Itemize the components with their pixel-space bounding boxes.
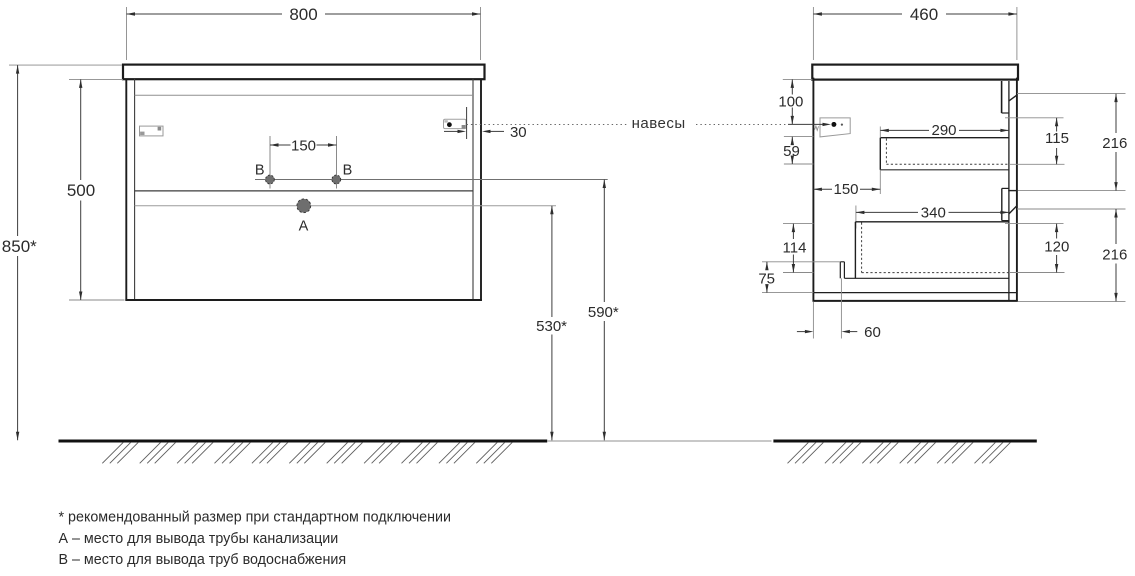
thin floor line between views [547, 440, 771, 442]
right hinge plate [444, 119, 467, 128]
dotted hanger line left segment [467, 124, 628, 126]
svg-text:120: 120 [1044, 239, 1069, 256]
svg-text:75: 75 [758, 271, 775, 288]
svg-text:800: 800 [289, 5, 317, 24]
floor line under front view [59, 440, 548, 443]
dimension 115 [1005, 118, 1069, 165]
side view front outer line [1016, 78, 1018, 302]
svg-text:100: 100 [778, 94, 803, 111]
dimension 290 [880, 122, 1009, 139]
front view mid divider line [135, 190, 473, 192]
floor line under side view [773, 440, 1036, 443]
side view bottom edge [813, 300, 1018, 302]
drawer 2 hidden bottom [861, 223, 863, 273]
front view left wall outer line [125, 79, 127, 301]
front panel 1 bottom edge [1008, 190, 1018, 192]
drawer 1 hidden bottom [885, 139, 887, 165]
front view bottom edge [125, 299, 482, 301]
dimension 460 [813, 5, 1017, 60]
dimension 530* [536, 206, 567, 440]
dimension 75 [758, 262, 840, 293]
dimension 850* [2, 65, 122, 440]
left hinge plate [140, 126, 164, 136]
svg-text:530*: 530* [536, 318, 567, 335]
dimension 590* [588, 180, 619, 441]
svg-text:150: 150 [291, 138, 316, 155]
bottom panel line [813, 292, 1017, 294]
svg-text:500: 500 [67, 181, 95, 200]
ground hatching front [102, 442, 123, 463]
svg-text:850*: 850* [2, 237, 37, 256]
dimension 150 side view [813, 181, 880, 198]
countertop front view [123, 65, 485, 80]
front view A level line [135, 205, 556, 207]
svg-text:115: 115 [1045, 130, 1069, 147]
svg-text:290: 290 [931, 122, 956, 139]
hinge extension line [466, 107, 468, 139]
front view right wall outer line [480, 79, 482, 301]
dimension 150 between B holes [270, 136, 337, 189]
drawer 2 outline [855, 222, 1009, 278]
dimension 114 [783, 224, 814, 273]
dimension 800 [127, 5, 481, 60]
side view back wall line [812, 78, 814, 301]
svg-text:590*: 590* [588, 304, 619, 321]
front panel bevel upper [1009, 95, 1017, 101]
svg-text:30: 30 [510, 124, 527, 141]
front view top rail line [135, 94, 473, 96]
side view bottom extension line [1018, 300, 1126, 302]
svg-text:340: 340 [921, 205, 946, 222]
svg-text:460: 460 [910, 5, 938, 24]
hole A [297, 199, 311, 213]
dimension 216 upper [1102, 94, 1127, 191]
dimension 100 [778, 79, 812, 124]
countertop side view [812, 65, 1018, 80]
svg-text:60: 60 [864, 324, 881, 341]
front panel 1 top extension line [1017, 93, 1126, 95]
svg-text:А: А [299, 218, 309, 234]
dimension 120 [1005, 224, 1069, 273]
svg-text:59: 59 [783, 143, 800, 160]
hole B left [266, 175, 275, 184]
svg-text:150: 150 [833, 181, 858, 198]
dimension 500 [67, 79, 125, 300]
handle groove upper [1002, 81, 1009, 113]
hanger leader arrow [788, 123, 824, 125]
svg-text:216: 216 [1102, 135, 1127, 152]
svg-text:114: 114 [783, 240, 807, 257]
svg-text:А – место для вывода трубы кан: А – место для вывода трубы канализации [59, 531, 339, 547]
dimension 59 [783, 137, 813, 164]
dotted hanger line right segment [696, 124, 788, 126]
svg-text:216: 216 [1102, 247, 1127, 264]
side view front inner line [1008, 81, 1010, 301]
dimension 340 [856, 205, 1009, 229]
hinge plate side view [815, 118, 851, 137]
front panel 2 top extension line [1017, 208, 1126, 210]
dimension 30 [444, 124, 527, 141]
front panel 1 bottom extension line [1018, 190, 1126, 192]
drawer 1 outline [880, 138, 1009, 170]
plinth recess step [839, 262, 841, 279]
hole B right [332, 175, 341, 184]
dimension 216 lower [1102, 209, 1127, 301]
svg-text:В: В [343, 162, 353, 178]
bottom shelf line [844, 277, 1009, 279]
front view left wall inner line [134, 79, 136, 300]
ground hatching side [788, 442, 809, 463]
svg-text:* рекомендованный размер при с: * рекомендованный размер при стандартном… [59, 510, 452, 526]
svg-text:навесы: навесы [632, 115, 686, 132]
front panel bevel lower [1009, 206, 1017, 214]
dimension 60 [797, 278, 881, 341]
handle groove lower [1002, 188, 1009, 220]
svg-text:В – место для вывода труб водо: В – место для вывода труб водоснабжения [59, 552, 347, 568]
svg-text:В: В [255, 162, 265, 178]
front view B level line [255, 179, 608, 181]
front view right wall inner line [472, 79, 474, 300]
drawer 1 left extension line [879, 127, 881, 138]
